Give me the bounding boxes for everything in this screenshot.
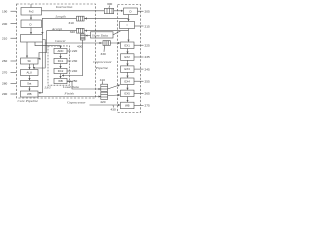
leader 245 (134, 68, 144, 70)
wire finish line (38, 96, 101, 98)
svg-text:200: 200 (2, 22, 7, 26)
store queue 400 (80, 34, 85, 40)
length arrow into queue (85, 18, 87, 20)
svg-text:Coprocessor: Coprocessor (93, 60, 112, 64)
coproc stage WB box 275 (121, 102, 135, 109)
leader 210 (11, 37, 17, 39)
svg-text:Length: Length (55, 14, 66, 18)
leader 265 (134, 92, 144, 94)
coprocessor pipeline dashed box (118, 5, 141, 113)
wire DC2 to WB (60, 74, 62, 78)
svg-text:DC1: DC1 (58, 59, 64, 63)
wire fetch input (30, 4, 32, 8)
svg-text:275: 275 (145, 104, 150, 108)
svg-text:300: 300 (107, 2, 112, 6)
stage Sh box 260 (21, 58, 39, 64)
svg-text:EX3: EX3 (125, 67, 131, 71)
svg-text:270: 270 (2, 71, 7, 75)
leader 240 (67, 70, 71, 72)
leader 220 (67, 50, 71, 52)
leader 300 (108, 6, 111, 8)
wire flush vertical B (34, 43, 45, 69)
coproc stage D box 205 (124, 8, 138, 15)
coproc wire I to EX1 (128, 29, 130, 42)
svg-text:EX4: EX4 (125, 79, 131, 83)
accept queue 320 (77, 28, 85, 33)
wire De to Iss (30, 28, 32, 35)
svg-text:250: 250 (72, 79, 77, 83)
coproc stage EX3 box 245 (121, 66, 135, 73)
wire store queue vertical (62, 36, 83, 76)
svg-text:320: 320 (70, 30, 75, 34)
svg-text:310: 310 (69, 21, 74, 25)
coproc stage EX4 box 255 (121, 78, 135, 85)
coproc wire EX1 to EX2 (127, 49, 129, 54)
svg-text:WB: WB (58, 79, 63, 83)
instruction queue 300 (104, 8, 113, 13)
stage WB box 290 (21, 91, 39, 97)
LSU dashed box (48, 46, 70, 85)
LSU stage DC2 box 240 (54, 68, 67, 73)
cancel queue 330 (103, 41, 110, 46)
leader 190 (11, 10, 17, 12)
leader 410 (101, 81, 103, 84)
svg-text:190: 190 (2, 9, 7, 13)
finish queue 420 (101, 92, 108, 99)
svg-text:EX1: EX1 (125, 43, 131, 47)
svg-text:260: 260 (2, 59, 7, 63)
leader 205 (138, 10, 144, 12)
svg-text:225: 225 (145, 43, 150, 47)
wire Sat to WB (29, 87, 31, 91)
wire Iss to ADD (35, 42, 61, 48)
svg-text:Cancel: Cancel (55, 39, 65, 43)
coproc wire EX4 to EX5 (127, 85, 129, 90)
leader 270 (11, 72, 17, 74)
svg-text:D: D (129, 9, 131, 13)
coproc wire D to I (128, 15, 130, 22)
leader 330 (103, 46, 106, 52)
leader 260 (11, 60, 17, 62)
store data label box (91, 32, 114, 38)
svg-text:410: 410 (100, 78, 105, 82)
wire flush bottom line (90, 104, 121, 106)
leader 290 (11, 93, 17, 95)
wire cancel line (43, 40, 121, 44)
svg-text:LSU: LSU (44, 86, 52, 90)
leader 275 (134, 104, 144, 106)
svg-text:Sat: Sat (27, 82, 31, 86)
svg-text:WB: WB (27, 92, 32, 96)
svg-text:330: 330 (101, 52, 106, 56)
coproc stage EX2 box 235 (121, 54, 135, 61)
svg-text:D: D (29, 22, 31, 26)
wire ADD to DC1 (60, 54, 62, 58)
stage Fe2 box 190 (21, 8, 42, 16)
svg-text:245: 245 (145, 67, 150, 71)
svg-text:290: 290 (2, 92, 7, 96)
svg-text:ALU: ALU (26, 71, 31, 75)
coproc wire EX3 to EX4 (127, 72, 129, 77)
svg-text:235: 235 (145, 55, 150, 59)
svg-text:Coprocessor: Coprocessor (67, 100, 86, 104)
stage ALU box 270 (21, 70, 39, 76)
svg-text:EX2: EX2 (125, 55, 131, 59)
svg-text:Store Data: Store Data (92, 34, 108, 38)
wire DC1 to DC2 (60, 64, 62, 68)
svg-text:280: 280 (2, 82, 7, 86)
svg-text:ADD: ADD (58, 49, 64, 53)
svg-text:EX5: EX5 (125, 91, 131, 95)
leader 215 (135, 25, 144, 27)
svg-text:210: 210 (2, 36, 7, 40)
svg-text:I: I (127, 23, 128, 27)
stage De box 200 (21, 20, 42, 28)
svg-text:Instruction: Instruction (55, 5, 73, 9)
leader 235 (134, 56, 144, 58)
coproc stage EX1 box 225 (121, 42, 135, 49)
leader 225 (134, 44, 144, 46)
wire load data line (67, 81, 101, 89)
svg-text:Finish: Finish (64, 92, 75, 96)
stage Sat box 280 (21, 81, 39, 87)
svg-text:220: 220 (72, 49, 77, 53)
wire finish arrow (108, 94, 120, 97)
leader 250 (67, 80, 71, 82)
wire load diagonal arrow (108, 85, 120, 89)
wire length line (42, 18, 128, 34)
svg-text:Sh: Sh (27, 59, 31, 63)
wire store data diagonal (113, 31, 121, 35)
core pipeline dashed box (17, 4, 96, 98)
svg-text:265: 265 (145, 92, 150, 96)
LSU stage DC1 box 230 (54, 58, 67, 63)
leader 230 (67, 60, 71, 62)
wire Iss to Sh (26, 42, 28, 58)
LSU stage WB box 250 (54, 78, 67, 83)
LSU stage ADD box 220 (54, 48, 67, 53)
wire ALU to Sat (29, 76, 31, 81)
svg-text:Core Pipeline: Core Pipeline (18, 99, 39, 103)
wire store data to queue (86, 35, 91, 37)
svg-text:Load Data: Load Data (62, 85, 79, 89)
wire Sh to ALU (29, 64, 31, 69)
coproc wire EX5 to WB (127, 97, 129, 102)
svg-text:Pipeline: Pipeline (95, 66, 109, 70)
stage Iss box 210 (21, 35, 43, 43)
load queue 410 (101, 84, 108, 91)
svg-text:DC2: DC2 (58, 69, 64, 73)
leader 280 (11, 83, 17, 85)
svg-text:430: 430 (111, 108, 116, 112)
wire flush vertical A (38, 42, 42, 93)
length queue 310 (77, 16, 85, 21)
wire Fe2 to De (30, 15, 32, 20)
svg-text:255: 255 (145, 79, 150, 83)
cancel arrow into queue (100, 42, 102, 44)
svg-text:Fe2: Fe2 (29, 10, 34, 14)
wire Sh to ALU right path (33, 64, 35, 68)
svg-text:215: 215 (145, 24, 150, 28)
svg-text:WB: WB (125, 104, 130, 108)
svg-text:240: 240 (72, 69, 77, 73)
svg-text:230: 230 (72, 59, 77, 63)
accept arrow into queue (85, 30, 87, 32)
coproc stage I box 215 (120, 22, 135, 29)
coproc wire EX2 to EX3 (127, 60, 129, 65)
svg-text:420: 420 (100, 100, 105, 104)
leader 255 (134, 80, 144, 82)
coproc stage EX5 box 265 (121, 90, 135, 97)
svg-text:Accept: Accept (51, 27, 63, 31)
wire instruction line (42, 10, 124, 12)
leader 200 (11, 23, 17, 25)
wire accept line (38, 31, 128, 59)
svg-text:400: 400 (77, 45, 82, 49)
leader 360 (112, 105, 115, 108)
svg-text:205: 205 (145, 9, 150, 13)
